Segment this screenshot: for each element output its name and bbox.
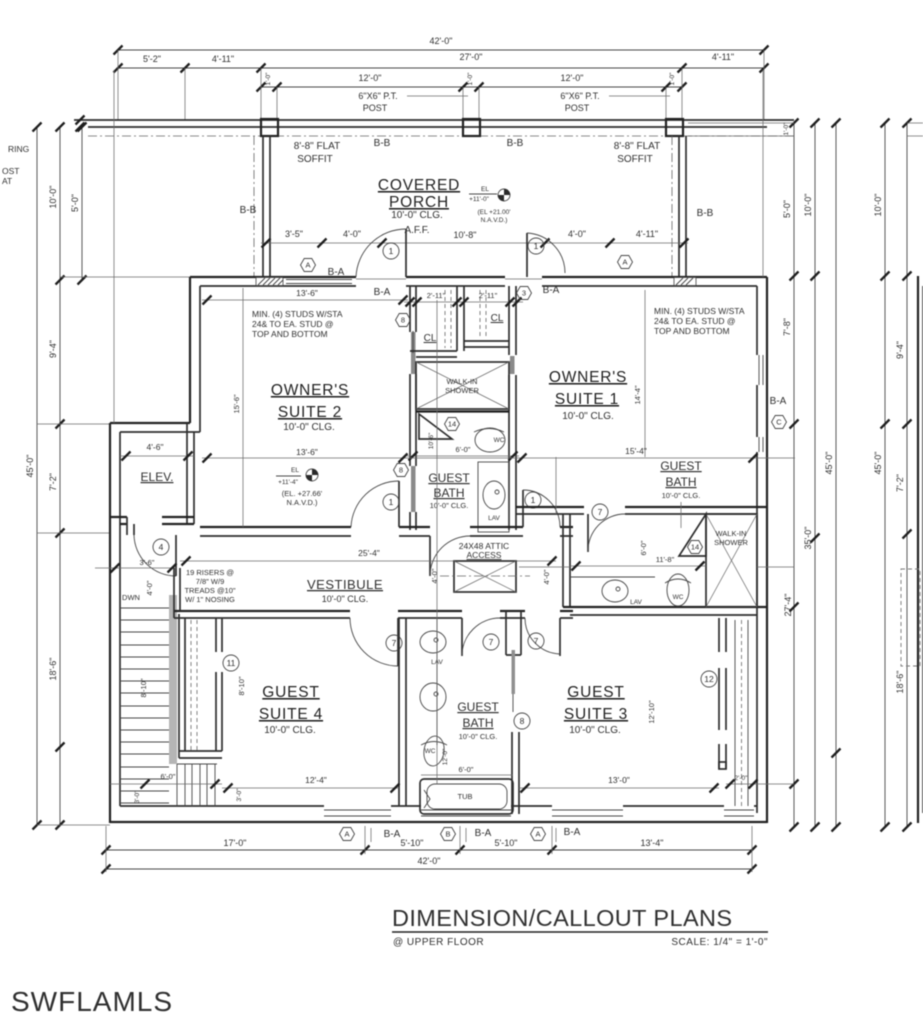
shower 2 bench (639, 514, 706, 556)
bath 3 dim (570, 555, 706, 571)
svg-text:CL: CL (424, 333, 437, 344)
svg-text:A: A (535, 830, 540, 839)
svg-text:ACCESS: ACCESS (467, 550, 502, 560)
svg-text:COVERED: COVERED (378, 177, 460, 194)
toilet WC 2 (421, 735, 449, 767)
svg-text:35'-0": 35'-0" (803, 527, 813, 550)
svg-text:EL: EL (481, 186, 489, 193)
svg-text:SHOWER: SHOWER (714, 538, 748, 547)
svg-text:13'-6": 13'-6" (296, 288, 318, 298)
walk-in shower 1 (416, 362, 509, 412)
porch post 1 (261, 119, 278, 136)
svg-text:A: A (305, 261, 310, 270)
svg-text:1: 1 (389, 246, 394, 256)
section marker B-A / C right wall (770, 396, 787, 429)
svg-text:WC: WC (673, 594, 684, 601)
svg-text:7'-2": 7'-2" (895, 474, 905, 492)
svg-text:W/ 1" NOSING: W/ 1" NOSING (185, 595, 235, 604)
exterior wall right (757, 277, 767, 823)
svg-text:4'-0": 4'-0" (568, 229, 586, 239)
porch elevation marker (469, 186, 510, 224)
svg-text:WC: WC (494, 437, 505, 444)
svg-text:4'-11": 4'-11" (212, 54, 234, 64)
bath column east wall (OS1 west) (509, 286, 516, 530)
stair treads upper flight (120, 608, 169, 803)
svg-text:6"X6" P.T.: 6"X6" P.T. (358, 91, 397, 101)
svg-text:7/8" W/9: 7/8" W/9 (196, 577, 225, 586)
svg-text:8'-8" FLAT: 8'-8" FLAT (614, 141, 660, 152)
svg-text:7'-2": 7'-2" (48, 473, 58, 491)
svg-text:4'-0": 4'-0" (343, 229, 361, 239)
gs3 dims (519, 700, 758, 792)
owners suite 2 label (271, 382, 349, 433)
svg-text:5'-0": 5'-0" (782, 200, 792, 218)
svg-text:12'-0": 12'-0" (442, 748, 449, 765)
svg-text:(EL. +27.66': (EL. +27.66' (282, 489, 323, 498)
svg-text:3'-6": 3'-6" (140, 558, 155, 567)
guest bath 3 south wall (563, 607, 767, 615)
svg-text:45'-0": 45'-0" (873, 452, 883, 475)
svg-text:3'-5": 3'-5" (285, 229, 303, 239)
svg-text:18'-6": 18'-6" (895, 671, 905, 694)
svg-text:2'-11": 2'-11" (479, 291, 498, 300)
svg-text:7'-8": 7'-8" (782, 318, 792, 336)
witness lines (114, 70, 794, 784)
svg-text:GUEST: GUEST (660, 459, 702, 473)
svg-text:8'-10": 8'-10" (237, 676, 246, 695)
svg-text:5'-0": 5'-0" (70, 194, 80, 212)
guest bath 2 label (457, 700, 499, 741)
svg-text:1'-0": 1'-0" (669, 72, 676, 86)
svg-text:18'-6": 18'-6" (48, 658, 58, 681)
svg-text:10'-0" CLG.: 10'-0" CLG. (391, 210, 443, 221)
svg-text:A.F.F.: A.F.F. (404, 225, 429, 236)
svg-text:1: 1 (534, 241, 539, 251)
svg-text:7: 7 (392, 638, 397, 648)
gs4 closet (179, 614, 239, 758)
svg-text:LAV: LAV (488, 515, 500, 522)
svg-text:1'-0": 1'-0" (265, 72, 272, 86)
svg-text:12'-10": 12'-10" (647, 700, 656, 724)
svg-text:5'-10": 5'-10" (401, 838, 424, 848)
svg-text:N.A.V.D.): N.A.V.D.) (287, 498, 318, 507)
landing dim line (95, 564, 177, 573)
svg-text:(EL +21.00': (EL +21.00' (478, 209, 511, 216)
svg-text:27'-4": 27'-4" (783, 594, 793, 617)
svg-text:14'-4": 14'-4" (633, 385, 642, 404)
svg-text:10'-0" CLG.: 10'-0" CLG. (430, 501, 469, 510)
svg-text:GUEST: GUEST (428, 471, 470, 485)
svg-text:4'-0": 4'-0" (542, 569, 551, 584)
svg-text:TOP AND BOTTOM: TOP AND BOTTOM (654, 326, 730, 336)
stair stringer (169, 595, 177, 764)
guest bath 1 dim row (394, 432, 520, 476)
svg-text:5'-10": 5'-10" (495, 838, 518, 848)
svg-text:8: 8 (399, 466, 403, 475)
soffit label right (507, 138, 661, 165)
guest bath 2 west fixtures (420, 618, 446, 745)
closet CL left (410, 290, 457, 357)
svg-text:24& TO EA. STUD @: 24& TO EA. STUD @ (252, 319, 334, 329)
svg-text:WALK-IN: WALK-IN (447, 377, 478, 386)
svg-text:MIN. (4) STUDS W/STA: MIN. (4) STUDS W/STA (252, 309, 343, 319)
shower bench (419, 414, 452, 439)
svg-text:B-A: B-A (543, 285, 560, 296)
svg-text:19 RISERS @: 19 RISERS @ (186, 568, 234, 577)
svg-text:LAV: LAV (630, 599, 642, 606)
os2 elevation marker (276, 467, 323, 507)
svg-text:8: 8 (401, 316, 405, 325)
svg-text:11'-8": 11'-8" (656, 555, 675, 564)
porch side wall left (254, 136, 270, 277)
lav 3 (570, 577, 655, 606)
svg-text:SWFLAMLS: SWFLAMLS (11, 986, 173, 1017)
svg-text:6'-0": 6'-0" (456, 445, 471, 454)
svg-text:45'-0": 45'-0" (824, 452, 834, 475)
svg-text:TUB: TUB (458, 792, 473, 801)
svg-text:B-B: B-B (240, 205, 257, 216)
svg-text:2'-11": 2'-11" (427, 291, 446, 300)
hall south wall (174, 568, 573, 618)
porch post 2 (463, 119, 480, 136)
soffit label left (294, 138, 391, 165)
porch post 3 (666, 119, 683, 136)
bath2/gs3 west wall lower (512, 732, 519, 814)
svg-text:SCALE: 1/4" = 1'-0": SCALE: 1/4" = 1'-0" (671, 937, 768, 948)
svg-text:B-B: B-B (697, 208, 714, 219)
svg-text:10'-0" CLG.: 10'-0" CLG. (283, 422, 335, 433)
window hatch top-right (674, 278, 696, 286)
door D1 porch to vestibule (356, 229, 406, 277)
svg-text:9'-4": 9'-4" (48, 340, 58, 358)
door to guest bath 3 (588, 504, 625, 552)
door D2 porch to owners suite 1 (527, 233, 565, 277)
svg-text:10'-8": 10'-8" (454, 230, 477, 240)
svg-text:A: A (344, 830, 349, 839)
vestibule north wall (200, 527, 573, 536)
svg-text:15'-6": 15'-6" (232, 394, 241, 413)
title: dimension/callout plans (392, 905, 768, 948)
guest bath 3 west wall (563, 514, 570, 607)
svg-text:3'-0": 3'-0" (134, 790, 141, 804)
svg-text:SUITE 4: SUITE 4 (259, 706, 323, 723)
svg-text:4: 4 (159, 542, 164, 552)
svg-text:BATH: BATH (665, 475, 696, 489)
stud note left (252, 309, 343, 339)
svg-text:9'-4": 9'-4" (895, 341, 905, 359)
gs3 closet east (701, 618, 748, 806)
svg-text:B-A: B-A (384, 829, 401, 840)
vestibule dim 25-4 (180, 548, 557, 566)
exterior wall left upper (190, 277, 200, 432)
dimension chain left (2, 123, 190, 830)
exterior wall bottom (110, 806, 767, 822)
svg-text:4'-0": 4'-0" (430, 568, 439, 583)
svg-text:WALK-IN: WALK-IN (716, 529, 747, 538)
svg-text:6"X6" P.T.: 6"X6" P.T. (560, 91, 599, 101)
svg-text:8: 8 (520, 716, 525, 726)
svg-text:10'-0" CLG.: 10'-0" CLG. (562, 411, 614, 422)
svg-text:WC: WC (425, 748, 436, 755)
stair treads lower flight (177, 764, 217, 806)
dimension chain bottom (102, 826, 757, 874)
svg-text:13'-6": 13'-6" (296, 447, 318, 457)
svg-text:SOFFIT: SOFFIT (297, 154, 333, 165)
elevator room (110, 423, 194, 535)
svg-text:ELEV.: ELEV. (141, 470, 174, 484)
covered porch title (378, 177, 460, 236)
vanity + lav 1 (478, 462, 509, 532)
svg-text:13'-4": 13'-4" (641, 838, 664, 848)
door owners suite 1 (523, 490, 560, 527)
window hatch top-left (256, 278, 283, 286)
svg-text:42'-0": 42'-0" (430, 36, 453, 46)
svg-text:B-B: B-B (507, 138, 524, 149)
closet CL right (464, 290, 509, 347)
svg-text:GUEST: GUEST (457, 700, 499, 714)
svg-text:6'-0": 6'-0" (161, 772, 176, 781)
svg-text:B-A: B-A (475, 828, 492, 839)
owners suite 1 south wall (516, 507, 767, 514)
pocket door wall between hall doors (506, 611, 530, 729)
svg-text:24& TO EA. STUD @: 24& TO EA. STUD @ (654, 316, 736, 326)
svg-text:B-A: B-A (374, 287, 391, 298)
svg-text:SUITE 3: SUITE 3 (564, 706, 628, 723)
owners suite 1 label (549, 369, 627, 422)
svg-text:12'-0": 12'-0" (359, 73, 382, 83)
svg-text:3'-0": 3'-0" (236, 788, 243, 802)
svg-text:B: B (445, 830, 450, 839)
svg-text:B-A: B-A (564, 827, 581, 838)
svg-text:DIMENSION/CALLOUT PLANS: DIMENSION/CALLOUT PLANS (392, 905, 732, 931)
tub (420, 765, 513, 814)
svg-text:10'-0" CLG.: 10'-0" CLG. (569, 725, 621, 736)
exterior wall left lower (110, 423, 120, 823)
svg-text:11: 11 (227, 658, 236, 668)
svg-text:RING: RING (8, 144, 29, 154)
svg-text:1'-0": 1'-0" (783, 122, 790, 136)
callout hexagon A + B-A labels at top wall (301, 256, 633, 299)
owners suite 2 east wall with pocket doors (410, 286, 416, 530)
guest suite 4 label (259, 684, 323, 736)
svg-text:25'-4": 25'-4" (358, 548, 380, 558)
svg-text:12'-4": 12'-4" (305, 775, 327, 785)
toilet WC 3 (665, 574, 691, 606)
svg-text:2'-0": 2'-0" (735, 775, 749, 782)
closet dim row 2-11 (396, 287, 532, 327)
svg-text:10'-0" CLG.: 10'-0" CLG. (264, 725, 316, 736)
svg-text:@ UPPER FLOOR: @ UPPER FLOOR (393, 937, 484, 948)
door guest suite 3 (525, 618, 560, 656)
svg-text:7: 7 (534, 636, 539, 646)
toilet WC 1 (474, 428, 505, 452)
svg-text:7: 7 (598, 507, 603, 517)
svg-text:B-A: B-A (770, 396, 787, 407)
svg-text:12: 12 (704, 674, 714, 684)
svg-text:10'-0": 10'-0" (803, 194, 813, 217)
svg-text:TOP AND BOTTOM: TOP AND BOTTOM (252, 329, 328, 339)
stair note (184, 568, 235, 604)
svg-text:+11'-4": +11'-4" (278, 479, 299, 486)
svg-text:45'-0": 45'-0" (25, 455, 35, 478)
svg-text:POST: POST (363, 103, 388, 113)
guest suite 3 label (564, 684, 628, 736)
svg-text:SUITE 1: SUITE 1 (555, 391, 619, 408)
door guest bath 1 (430, 536, 470, 576)
porch side wall right (672, 136, 686, 277)
svg-text:14: 14 (691, 543, 699, 552)
svg-text:10'-0": 10'-0" (873, 194, 883, 217)
svg-text:OWNER'S: OWNER'S (271, 382, 349, 399)
svg-text:4'-0": 4'-0" (145, 580, 154, 595)
guest bath 3 label (660, 459, 702, 528)
svg-text:A: A (622, 258, 627, 267)
svg-text:GUEST: GUEST (567, 684, 624, 701)
gs4 dims (110, 676, 400, 803)
svg-text:1'-0": 1'-0" (467, 72, 474, 86)
svg-text:12'-0": 12'-0" (561, 73, 584, 83)
svg-text:MIN. (4) STUDS W/STA: MIN. (4) STUDS W/STA (654, 306, 745, 316)
dimension chain right (688, 119, 841, 832)
svg-text:10'-0": 10'-0" (48, 186, 58, 209)
svg-text:CL: CL (491, 313, 504, 324)
door owners suite 2 (351, 481, 399, 527)
svg-text:B-A: B-A (328, 267, 345, 278)
door guest suite 4 (350, 618, 402, 666)
svg-text:AT: AT (2, 176, 12, 186)
walk-in shower 2 (706, 514, 757, 607)
svg-text:SHOWER: SHOWER (445, 386, 479, 395)
wall jog at elev (110, 423, 200, 432)
svg-text:17'-0": 17'-0" (224, 838, 247, 848)
svg-text:GUEST: GUEST (262, 684, 319, 701)
svg-text:6'-0": 6'-0" (459, 765, 474, 774)
stud note right (654, 306, 745, 336)
svg-text:1: 1 (389, 497, 394, 507)
guest bath 1 label (428, 471, 470, 510)
svg-text:POST: POST (565, 103, 590, 113)
svg-text:5'-2": 5'-2" (143, 54, 161, 64)
svg-text:SUITE 2: SUITE 2 (278, 404, 342, 421)
svg-text:10'-0" CLG.: 10'-0" CLG. (459, 732, 498, 741)
exterior wall top (190, 277, 767, 286)
svg-text:B-B: B-B (374, 138, 391, 149)
svg-text:10'-6": 10'-6" (428, 432, 435, 449)
svg-text:8'-10": 8'-10" (139, 678, 148, 697)
svg-text:27'-0": 27'-0" (460, 52, 483, 62)
svg-text:OST: OST (2, 166, 19, 176)
svg-text:BATH: BATH (433, 486, 464, 500)
bottom callout hexagons (340, 827, 581, 842)
svg-text:3: 3 (522, 289, 526, 298)
porch dimension row (261, 229, 689, 248)
os2 dims (202, 288, 795, 463)
svg-text:N.A.V.D.): N.A.V.D.) (481, 217, 508, 224)
window glazing top (13-6 window) (286, 280, 352, 284)
svg-text:DWN: DWN (122, 593, 140, 602)
svg-text:42'-0": 42'-0" (418, 856, 441, 866)
svg-text:8'-8" FLAT: 8'-8" FLAT (294, 141, 340, 152)
svg-text:4'-11": 4'-11" (636, 229, 658, 239)
svg-text:1: 1 (531, 495, 536, 505)
svg-text:TREADS @10": TREADS @10" (184, 586, 235, 595)
svg-text:OWNER'S: OWNER'S (549, 369, 627, 386)
adjacent unit wall (917, 276, 919, 823)
covered porch roof/beam lines (74, 116, 794, 137)
dimension chain top (114, 36, 769, 120)
svg-text:C: C (776, 418, 782, 427)
adjacent plan fragment right edge (873, 119, 923, 832)
svg-text:10'-0" CLG.: 10'-0" CLG. (322, 594, 368, 604)
svg-text:13'-0": 13'-0" (608, 775, 630, 785)
svg-text:6'-0": 6'-0" (639, 540, 648, 555)
svg-text:14: 14 (448, 420, 456, 429)
svg-text:4'-6": 4'-6" (147, 442, 164, 452)
elevator door arc (134, 535, 176, 576)
svg-text:15'-4": 15'-4" (625, 446, 647, 456)
svg-text:4'-11": 4'-11" (712, 52, 734, 62)
svg-text:EL: EL (291, 467, 299, 474)
gs4 east wall (399, 618, 406, 806)
svg-text:VESTIBULE: VESTIBULE (307, 577, 383, 592)
attic access (430, 541, 551, 592)
vestibule label (307, 577, 383, 604)
os1 dims (518, 385, 758, 462)
svg-text:10'-0" CLG.: 10'-0" CLG. (662, 491, 701, 500)
svg-text:+11'-0": +11'-0" (469, 196, 490, 203)
svg-text:BATH: BATH (462, 716, 493, 730)
closet center wall (457, 286, 464, 351)
svg-text:SOFFIT: SOFFIT (617, 154, 653, 165)
svg-text:7: 7 (489, 637, 494, 647)
door guest bath lower (462, 618, 500, 656)
svg-text:PORCH: PORCH (389, 194, 449, 211)
